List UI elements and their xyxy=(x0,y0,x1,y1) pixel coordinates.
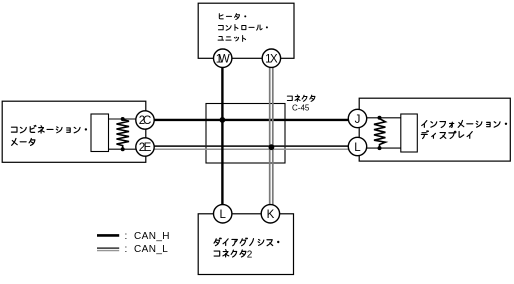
svg-text:1W: 1W xyxy=(216,53,230,65)
svg-text:2C: 2C xyxy=(139,115,152,127)
svg-text:: CAN_H: : CAN_H xyxy=(125,231,170,242)
svg-text:K: K xyxy=(267,209,275,221)
svg-text:2: 2 xyxy=(247,249,253,260)
svg-text:L: L xyxy=(354,142,361,154)
svg-text:L: L xyxy=(219,209,226,221)
svg-text:2E: 2E xyxy=(139,142,152,154)
svg-text:C-45: C-45 xyxy=(292,103,310,112)
svg-text:J: J xyxy=(355,114,361,126)
svg-text:1X: 1X xyxy=(265,53,278,65)
svg-text:: CAN_L: : CAN_L xyxy=(125,244,169,255)
